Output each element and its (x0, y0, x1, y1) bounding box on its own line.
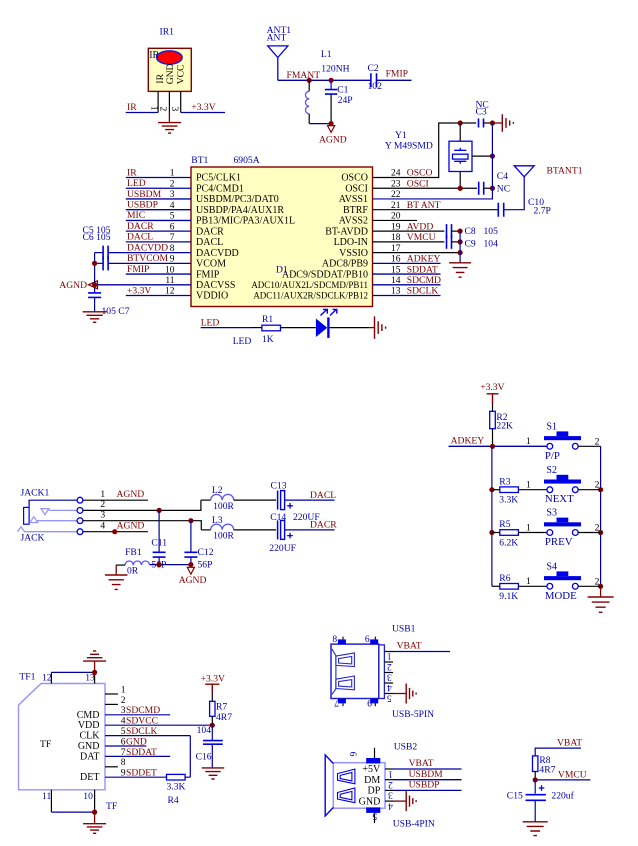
svg-text:IR: IR (127, 167, 137, 178)
wire pin 17 to ground rail (373, 252, 461, 254)
resistor R8 (533, 756, 538, 780)
svg-text:USB1: USB1 (392, 624, 416, 635)
svg-text:TF: TF (106, 801, 117, 812)
wire/net label USBDP pin 4 (126, 199, 191, 210)
net label ADKEY wire (449, 436, 548, 447)
wire pins 11-10 bottom (51, 811, 94, 813)
svg-text:USBDM: USBDM (409, 769, 444, 780)
junction C12 tap (188, 518, 193, 523)
svg-text:R5: R5 (499, 519, 510, 530)
svg-text:104: 104 (197, 725, 212, 736)
svg-text:SDCMD: SDCMD (407, 275, 441, 286)
svg-text:C16: C16 (196, 752, 212, 763)
ground below IR1 (158, 123, 181, 134)
svg-text:NC: NC (497, 184, 510, 195)
svg-text:C11: C11 (151, 538, 167, 549)
TF card TF1 body (19, 684, 106, 790)
wire/net label DACR pin 6 (126, 221, 191, 232)
svg-text:D1: D1 (276, 265, 288, 276)
svg-text:DACR: DACR (127, 221, 154, 232)
wire/net label MIC pin 5 (126, 210, 191, 221)
svg-text:C9: C9 (465, 239, 476, 250)
svg-text:+3.3V: +3.3V (191, 102, 215, 113)
USB1 pin 2 stub (384, 661, 393, 663)
svg-text:JACK: JACK (21, 533, 45, 544)
wire S3 pin2 to right rail (578, 532, 600, 534)
wire/net label SDDAT pin 15 (373, 264, 441, 275)
svg-text:SDCLK: SDCLK (407, 286, 439, 297)
svg-text:IR1: IR1 (160, 27, 175, 38)
svg-text:L1: L1 (321, 49, 332, 60)
USB1 pin 7 pad (338, 699, 346, 707)
svg-text:USBDM: USBDM (127, 189, 162, 200)
svg-text:S1: S1 (546, 422, 557, 433)
svg-text:2: 2 (595, 436, 600, 447)
USB2 connector body (325, 755, 385, 816)
USB2 pin 3 stub (385, 789, 393, 791)
wire VMCU pin 18 to C9 (373, 241, 445, 243)
svg-text:6: 6 (365, 634, 370, 645)
svg-text:220UF: 220UF (269, 543, 296, 554)
svg-text:USB-4PIN: USB-4PIN (393, 819, 435, 830)
svg-text:VBAT: VBAT (557, 737, 582, 748)
svg-text:GND: GND (126, 736, 147, 747)
svg-text:OSCI: OSCI (345, 183, 368, 194)
svg-text:USBDP/PA4/AUX1R: USBDP/PA4/AUX1R (196, 205, 284, 216)
svg-text:R3: R3 (499, 476, 510, 487)
svg-text:C1: C1 (337, 84, 348, 95)
wire crystal right to rail (472, 155, 492, 157)
svg-text:OSCI: OSCI (407, 178, 429, 189)
wire C3 to ground (484, 122, 493, 124)
wire/net label BTVCOM pin 9 (108, 253, 191, 264)
capacitor C5 (95, 246, 109, 260)
capacitor C3 (479, 119, 484, 128)
wire C4 right to rail (484, 187, 493, 189)
wire rail down to pin 22 (373, 123, 493, 199)
svg-text:R1: R1 (262, 314, 273, 325)
switch S3 cap (544, 518, 581, 527)
USB1 pin 3 stub (384, 672, 393, 674)
svg-text:C15: C15 (507, 791, 523, 802)
capacitor C11 (153, 510, 166, 564)
svg-text:2: 2 (121, 695, 126, 706)
wire IR1 pin2 to ground (168, 113, 170, 123)
svg-text:5: 5 (372, 811, 377, 822)
svg-text:USB2: USB2 (394, 742, 418, 753)
svg-text:AGND: AGND (59, 280, 87, 291)
svg-text:2: 2 (595, 523, 600, 534)
USB2 pin 2 stub (385, 779, 393, 781)
wire right rail to ground (600, 586, 602, 597)
svg-text:1: 1 (387, 650, 392, 661)
junction R7 SDVCC C16 (210, 723, 215, 728)
switch S2 contacts (547, 487, 578, 493)
svg-text:USBDP: USBDP (127, 199, 158, 210)
IR1 pin 3 (180, 91, 182, 112)
svg-text:SDCMD: SDCMD (126, 705, 160, 716)
USB1 connector body (331, 644, 384, 698)
wire/net label SDCLK pin 13 (373, 286, 441, 297)
svg-text:DACVDD: DACVDD (196, 248, 239, 259)
junction AGND row rail (92, 282, 97, 287)
ground right of USB2 (rotated) (406, 791, 416, 811)
svg-text:BT1: BT1 (191, 155, 208, 166)
svg-text:C8: C8 (465, 226, 476, 237)
wire/net label AGND jack pin4 (83, 521, 148, 532)
svg-text:100R: 100R (213, 501, 234, 512)
IR1 pin 2 (168, 91, 170, 112)
svg-text:2: 2 (595, 480, 600, 491)
wire C8 to ground rail (452, 230, 461, 232)
svg-text:VDDIO: VDDIO (196, 291, 228, 302)
junction C6 rail (92, 261, 97, 266)
wire/net label ADKEY pin 16 (373, 254, 441, 265)
wire/net label VMCU (535, 769, 590, 780)
svg-text:102: 102 (368, 81, 383, 92)
svg-text:ADC8/PB9: ADC8/PB9 (322, 259, 368, 270)
IR receiver IR1 lens (157, 51, 182, 64)
wire/net label DACVDD pin 8 (108, 242, 191, 253)
wire/net label +3.3V pin 12 (126, 285, 191, 296)
svg-text:VSSIO: VSSIO (339, 248, 368, 259)
wire SDCLK to R4 (vertical) (189, 736, 191, 778)
svg-text:6.2K: 6.2K (499, 537, 518, 548)
TF1 pin 2 stub/wire (105, 703, 118, 705)
junction right rail S2 row (598, 487, 603, 492)
ground below TF1 (83, 824, 106, 834)
wire/net label SDCMD pin 14 (373, 275, 441, 286)
svg-text:9: 9 (367, 697, 372, 708)
power port +3.3V at R7 (201, 674, 225, 695)
svg-text:4: 4 (387, 682, 392, 693)
inductor L2 (201, 494, 276, 500)
wire R3 to S2 (518, 489, 547, 491)
wire C2 to FMIP (377, 79, 412, 81)
crystal Y1 symbol (449, 123, 472, 188)
capacitor C13 (polarized) (278, 491, 285, 510)
junction C9 rail (458, 239, 463, 244)
junction R8 VMCU C15 (533, 777, 538, 782)
wire/net label IR pin 1 (126, 167, 191, 178)
svg-text:ADC9/SDDAT/PB10: ADC9/SDDAT/PB10 (282, 269, 368, 280)
TF1 pin 11 stub (50, 790, 52, 812)
inductor L1 (305, 80, 309, 123)
svg-text:PC4/CMD1: PC4/CMD1 (196, 183, 244, 194)
ground below C8/C9 rail (449, 263, 471, 277)
svg-text:IR: IR (127, 102, 137, 113)
antenna BTANT1 symbol (514, 166, 534, 177)
junction at L1 top (307, 78, 312, 83)
switch S4 contacts (547, 583, 578, 589)
TF1 pin 7 stub/wire (105, 755, 170, 757)
svg-text:TF: TF (40, 739, 51, 750)
svg-text:BT-AVDD: BT-AVDD (325, 226, 368, 237)
TF1 pin 9 stub/wire (105, 776, 167, 778)
svg-text:JACK1: JACK1 (21, 488, 50, 499)
junction left rail S3 row (489, 530, 494, 535)
svg-text:3.3K: 3.3K (167, 781, 186, 792)
wire pins 12-13 top (51, 671, 94, 673)
svg-text:VBAT: VBAT (397, 640, 422, 651)
capacitor C13 plus sign (287, 503, 293, 509)
ground rail right of chip (459, 231, 461, 262)
wire FMANT node (278, 79, 371, 81)
wire C10 to BT antenna (504, 177, 525, 210)
svg-text:S4: S4 (546, 562, 557, 573)
junction crystal right rail (490, 154, 495, 159)
wire USB2 GND pin to ground (393, 800, 406, 802)
svg-text:NEXT: NEXT (545, 493, 574, 505)
junction crystal top (458, 120, 463, 125)
wire R6 to S4 (518, 585, 547, 587)
svg-text:FB1: FB1 (125, 547, 142, 558)
svg-text:2: 2 (158, 107, 168, 112)
svg-text:+5V: +5V (362, 764, 381, 775)
svg-text:PC5/CLK1: PC5/CLK1 (196, 173, 241, 184)
svg-text:DACVSS: DACVSS (196, 280, 235, 291)
svg-text:C2: C2 (368, 63, 379, 74)
svg-text:SDDAT: SDDAT (407, 264, 438, 275)
TF1 pin 4 stub/wire (105, 724, 212, 726)
ground below FB1 (105, 575, 128, 589)
wire/net label VBAT USB2 (393, 758, 462, 769)
wire/net label USBDP (393, 780, 462, 791)
wire D1 to ground (330, 327, 370, 329)
svg-text:BTVCOM: BTVCOM (127, 253, 169, 264)
switch S4 cap (544, 571, 581, 580)
svg-text:AGND: AGND (179, 575, 207, 586)
svg-text:3: 3 (387, 671, 392, 682)
wire crystal top node to C3 (460, 122, 476, 124)
LED diode D1 (316, 309, 337, 338)
AGND power port arrow at C1 (328, 126, 335, 133)
junction C11 tap (157, 508, 162, 513)
svg-text:AVDD: AVDD (407, 221, 434, 232)
jack pin 2 contact circle (77, 508, 83, 514)
svg-text:SDDAT: SDDAT (126, 747, 157, 758)
power port +3.3V at R2 (480, 382, 504, 404)
USB1 pin 9 pad (370, 699, 378, 707)
capacitor C14 plus sign (287, 533, 293, 539)
svg-text:R6: R6 (499, 573, 510, 584)
svg-text:AVSS2: AVSS2 (339, 216, 368, 227)
svg-text:2.7P: 2.7P (534, 206, 551, 217)
jack contact prong pin4 (17, 527, 77, 532)
svg-text:C13: C13 (271, 481, 287, 492)
svg-text:PB13/MIC/PA3/AUX1L: PB13/MIC/PA3/AUX1L (196, 216, 295, 227)
svg-text:120NH: 120NH (321, 64, 349, 75)
svg-text:DET: DET (80, 772, 99, 783)
svg-text:AGND: AGND (117, 489, 145, 500)
capacitor C15 (526, 780, 546, 822)
wire jack pin2 to L2 row (83, 500, 201, 510)
wire S4 pin2 to right rail (578, 585, 600, 587)
wire R1 to D1 (281, 327, 316, 329)
resistor R7 (210, 694, 215, 725)
AGND power port arrow below C12 (187, 567, 194, 574)
junction C8 rail (458, 229, 463, 234)
svg-text:VMCU: VMCU (558, 769, 587, 780)
svg-text:22K: 22K (496, 421, 513, 432)
junction at C1 bottom (329, 121, 334, 126)
junction at C1 top (329, 78, 334, 83)
svg-text:0R: 0R (127, 566, 139, 577)
svg-text:VCC: VCC (176, 65, 187, 85)
svg-text:SDDET: SDDET (126, 768, 157, 779)
ground right of USB1 (rotated) (406, 684, 416, 704)
right rail of buttons (600, 446, 602, 586)
antenna ANT1 symbol (268, 46, 288, 80)
svg-text:3.3K: 3.3K (499, 495, 518, 506)
svg-text:+3.3V: +3.3V (201, 674, 225, 685)
wire/net label USBDM pin 3 (126, 189, 191, 200)
svg-text:Y1: Y1 (395, 130, 407, 141)
svg-text:IR: IR (149, 50, 159, 61)
wire pin13 to top ground (94, 661, 96, 672)
capacitor C4 (479, 182, 484, 195)
svg-text:DAT: DAT (80, 751, 99, 762)
svg-text:4R7: 4R7 (216, 712, 232, 723)
wire/net label LED pin 2 (126, 178, 191, 189)
svg-text:4: 4 (388, 800, 393, 811)
switch S3 contacts (547, 530, 578, 536)
svg-text:DACVDD: DACVDD (127, 242, 168, 253)
svg-text:VMCU: VMCU (407, 232, 436, 243)
svg-text:MODE: MODE (545, 590, 577, 602)
svg-text:CLK: CLK (80, 731, 101, 742)
svg-text:DACR: DACR (196, 226, 224, 237)
wire pin10 to bottom ground (94, 812, 96, 824)
wire R5 to S3 (518, 532, 547, 534)
svg-text:4R7: 4R7 (539, 764, 555, 775)
jack pin 3 contact circle (77, 518, 83, 524)
wire BT ANT pin 21 to C10 (373, 209, 498, 211)
svg-text:DM: DM (364, 775, 380, 786)
TF1 pin 5 stub/wire (105, 735, 190, 737)
svg-text:GND: GND (78, 741, 100, 752)
svg-text:DACL: DACL (196, 237, 223, 248)
IR1 pin 1 (157, 91, 159, 112)
capacitor C6 (95, 256, 109, 270)
svg-text:104: 104 (484, 239, 499, 250)
wire L1 bottom to C1 bottom (309, 123, 331, 125)
TF1 pin 12 stub (50, 672, 52, 683)
ground above TF1 (flipped) (83, 651, 106, 661)
junction ADKEY R2 (490, 444, 495, 449)
net label AGND pin 11 with power port arrow (59, 280, 191, 291)
svg-text:USB-5PIN: USB-5PIN (392, 709, 434, 720)
svg-text:LED: LED (233, 336, 252, 347)
USB2 pin 1 stub (385, 768, 393, 770)
svg-text:7: 7 (334, 697, 339, 708)
inductor L3 (201, 524, 276, 530)
ground below C7 (83, 312, 107, 323)
wire AGND vertical rail left of chip (94, 253, 96, 293)
TF1 pin 13 stub (94, 672, 96, 683)
svg-text:56P: 56P (198, 560, 213, 571)
svg-text:ADKEY: ADKEY (407, 254, 441, 265)
wire pin 20 stub (373, 219, 418, 221)
svg-text:+3.3V: +3.3V (480, 382, 504, 393)
junction C3 right (490, 120, 495, 125)
svg-text:AVSS1: AVSS1 (339, 194, 368, 205)
svg-text:+3.3V: +3.3V (127, 285, 151, 296)
ground below C16 (202, 768, 225, 779)
TF1 pin 8 stub/wire (105, 766, 118, 768)
svg-text:1: 1 (121, 684, 126, 695)
svg-text:SDCLK: SDCLK (126, 726, 158, 737)
svg-text:AGND: AGND (117, 521, 145, 532)
junction left rail S2 row (489, 487, 494, 492)
wire OSCO pin 24 to crystal top (373, 123, 461, 178)
ground below buttons (588, 597, 614, 612)
svg-text:2: 2 (595, 576, 600, 587)
svg-text:FMIP: FMIP (127, 264, 149, 275)
svg-text:2: 2 (387, 661, 392, 672)
capacitor C8 (447, 224, 452, 238)
svg-text:DACL: DACL (127, 232, 153, 243)
wire LED net to R1 (201, 327, 252, 329)
junction pin17 rail (458, 250, 463, 255)
capacitor C1 (325, 80, 337, 123)
svg-text:DP: DP (368, 786, 381, 797)
capacitor C10 (498, 203, 503, 217)
resistor R1 (252, 325, 281, 331)
junction right rail S3 row (598, 530, 603, 535)
wire C9 to ground rail (452, 241, 461, 243)
junction C4 right (490, 186, 495, 191)
svg-text:1: 1 (526, 522, 531, 533)
wire AVDD pin 19 to C8 (373, 230, 445, 232)
wire +3.3V net (181, 112, 225, 114)
svg-text:100R: 100R (213, 531, 234, 542)
wire S1 pin2 to right rail (578, 445, 600, 447)
resistor R2 (490, 404, 496, 446)
svg-text:OSCO: OSCO (407, 168, 433, 179)
svg-text:1: 1 (526, 436, 531, 447)
svg-text:ADC11/AUX2R/SDCLK/PB12: ADC11/AUX2R/SDCLK/PB12 (253, 291, 368, 301)
svg-text:220uf: 220uf (551, 791, 574, 802)
wire/net label USBDM (393, 769, 462, 780)
svg-text:5: 5 (387, 692, 392, 703)
wire/net label FMIP pin 10 (126, 264, 191, 275)
svg-text:6905A: 6905A (234, 155, 260, 166)
svg-text:LED: LED (127, 178, 146, 189)
wire IR net (126, 112, 158, 114)
left rail of buttons (491, 446, 493, 586)
wire C14 to DACR (285, 529, 335, 531)
wire/net label VBAT USB1 (393, 640, 450, 651)
USB1 pin 5 stub (384, 693, 393, 695)
svg-text:SDVCC: SDVCC (126, 716, 158, 727)
svg-text:1K: 1K (262, 334, 274, 345)
svg-text:2: 2 (388, 779, 393, 790)
AGND rail at jack (150, 564, 191, 566)
capacitor C12 (184, 521, 197, 565)
svg-text:C6 105: C6 105 (83, 232, 111, 243)
svg-text:GND: GND (165, 63, 176, 84)
jack pin 4 contact circle (77, 529, 83, 535)
svg-text:GND: GND (359, 796, 381, 807)
TF1 pin 3 stub/wire (105, 714, 170, 716)
wire C7 to ground (94, 298, 96, 312)
capacitor C7 (88, 293, 101, 298)
svg-text:VDD: VDD (78, 720, 100, 731)
resistor R3 (500, 487, 519, 493)
wire USB1 pin5 to ground (393, 693, 406, 695)
svg-text:3: 3 (100, 509, 105, 520)
